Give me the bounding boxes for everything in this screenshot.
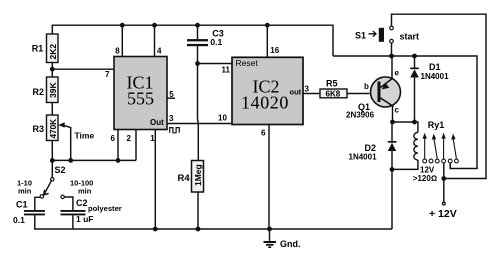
capacitor C2 <box>61 198 122 224</box>
node D1 bottom <box>412 120 417 125</box>
resistor R5 <box>320 79 347 99</box>
svg-text:0.1: 0.1 <box>13 215 25 225</box>
svg-text:Out: Out <box>150 118 164 127</box>
svg-text:>120Ω: >120Ω <box>413 174 437 183</box>
svg-text:C2: C2 <box>76 198 88 208</box>
svg-text:5: 5 <box>169 90 174 99</box>
svg-text:1N4001: 1N4001 <box>421 72 450 81</box>
svg-text:D2: D2 <box>365 143 377 153</box>
node C3 rail <box>195 23 200 28</box>
resistor R2 <box>33 77 59 103</box>
wire IC1 pin4 <box>154 25 156 57</box>
svg-text:1Meg: 1Meg <box>193 164 203 186</box>
node R1/R2 junction <box>50 67 55 72</box>
wire pin7 from R1/R2 junction <box>52 68 114 70</box>
svg-text:2N3906: 2N3906 <box>346 110 375 119</box>
wire IC1 pin6 drop <box>117 130 119 161</box>
+12V terminal <box>429 202 457 220</box>
switch S1 start <box>355 26 419 43</box>
svg-text:out: out <box>290 87 302 96</box>
svg-text:1 uF: 1 uF <box>76 214 93 224</box>
wire node to R4 with hop <box>197 64 200 161</box>
wire R5 to Q1 base <box>347 93 370 95</box>
node +12V junction <box>441 176 446 181</box>
relay contacts <box>423 137 458 163</box>
node pin8 rail <box>120 23 125 28</box>
IC IC1 555 timer <box>105 47 174 144</box>
wire IC1 pin8 <box>121 25 123 57</box>
node D1 top <box>412 54 417 59</box>
wire C3 top lead <box>197 25 199 39</box>
ground symbol <box>264 239 301 249</box>
wire top rail <box>52 25 333 56</box>
switch S2 <box>17 165 93 199</box>
wire IC2 pin16 <box>266 25 268 57</box>
node S1 bottom <box>389 54 394 59</box>
svg-text:D1: D1 <box>429 62 441 72</box>
wire D2 top lead <box>391 122 393 141</box>
svg-text:polyester: polyester <box>88 204 122 213</box>
svg-text:Ry1: Ry1 <box>428 120 445 130</box>
diode D1 <box>410 62 449 81</box>
wire D2 bottom lead to ground riser <box>391 151 393 229</box>
node pin6 tap <box>116 158 121 163</box>
wire IC2 pin6 drop <box>268 125 270 230</box>
svg-text:16: 16 <box>270 46 279 55</box>
wire IC1 pin1 drop <box>154 130 156 230</box>
node C3 bottom <box>195 61 200 66</box>
wire IC1 pin5 stub <box>167 97 176 99</box>
svg-text:2K2: 2K2 <box>48 44 58 60</box>
node pin4 rail <box>152 23 157 28</box>
transistor Q1 <box>346 69 401 120</box>
svg-text:6: 6 <box>261 128 266 137</box>
svg-text:3: 3 <box>305 85 310 94</box>
svg-text:R4: R4 <box>178 173 191 184</box>
svg-text:e: e <box>395 69 400 78</box>
svg-text:b: b <box>364 82 369 91</box>
wire C2 bottom lead <box>72 215 74 229</box>
svg-text:11: 11 <box>222 66 231 75</box>
wire C1 top lead <box>35 197 40 210</box>
svg-text:3: 3 <box>169 114 174 123</box>
svg-text:S2: S2 <box>55 165 66 175</box>
diode D2 <box>349 141 397 162</box>
capacitor C3 <box>187 28 224 46</box>
node coil bottom <box>390 167 395 172</box>
relay Ry1 coil <box>413 120 445 183</box>
svg-text:R5: R5 <box>326 79 338 89</box>
svg-text:555: 555 <box>127 89 154 109</box>
wire pot wiper <box>63 125 71 160</box>
wire relay c4 to +12V <box>443 163 445 202</box>
wire relay c5 jog <box>449 163 451 169</box>
svg-text:S1: S1 <box>355 31 366 41</box>
wire S2 common lead <box>51 160 53 177</box>
svg-text:min: min <box>18 187 32 196</box>
wire R3 bottom lead <box>51 141 53 162</box>
svg-text:7: 7 <box>105 70 110 79</box>
capacitor C1 <box>13 200 45 226</box>
squarewave glyph <box>170 128 180 133</box>
svg-text:C1: C1 <box>16 200 28 210</box>
svg-text:4: 4 <box>157 47 162 56</box>
svg-text:start: start <box>400 31 420 41</box>
svg-text:R3: R3 <box>33 124 45 134</box>
svg-text:2: 2 <box>127 134 132 143</box>
wire R4 bottom lead <box>197 192 199 229</box>
svg-text:min: min <box>78 187 92 196</box>
wire timing node horizontal <box>52 159 136 161</box>
svg-text:+ 12V: + 12V <box>429 208 457 220</box>
node gnd symbol <box>267 227 272 232</box>
svg-text:1N4001: 1N4001 <box>349 153 378 162</box>
svg-text:6K8: 6K8 <box>326 89 341 98</box>
wire D1 stub <box>414 56 416 68</box>
wire S2 arm <box>44 181 51 194</box>
wire C3 bottom lead to node <box>197 46 199 64</box>
wire IC1 pin3 to IC2 pin10 <box>167 123 232 125</box>
resistor R3 (pot) <box>33 115 95 141</box>
wire D1 bottom <box>414 78 416 123</box>
svg-text:0.1: 0.1 <box>210 37 222 47</box>
wire Q1 collector down <box>392 106 394 122</box>
wire IC1 pin2 drop <box>135 130 137 161</box>
svg-text:R1: R1 <box>32 43 44 53</box>
wire IC2 out to R5 <box>303 93 320 95</box>
resistor R1 <box>32 34 58 63</box>
svg-text:Reset: Reset <box>236 58 259 68</box>
wire bottom ground rail <box>35 215 392 229</box>
node pin16 rail <box>265 23 270 28</box>
wire V+ horizontal <box>333 56 477 169</box>
node wiper tap <box>68 158 73 163</box>
wire coil bottom <box>392 160 418 169</box>
node collector <box>390 120 395 125</box>
wire ground stub <box>269 229 271 241</box>
wire S1 top route <box>392 14 487 178</box>
svg-text:8: 8 <box>115 47 120 56</box>
IC IC2 14020 counter <box>218 46 310 137</box>
svg-text:Time: Time <box>75 130 95 140</box>
wire R2-R3 lead <box>51 103 53 116</box>
wire collector to coil top <box>393 122 418 132</box>
svg-text:c: c <box>395 106 400 115</box>
svg-text:470K: 470K <box>49 119 58 139</box>
wire pin11 <box>198 63 233 65</box>
node pin1 ground <box>153 227 158 232</box>
svg-text:14020: 14020 <box>241 93 289 113</box>
svg-text:R2: R2 <box>33 87 45 97</box>
node R4 ground <box>196 227 201 232</box>
svg-text:Gnd.: Gnd. <box>280 239 301 249</box>
wire Q1 emitter up <box>391 56 393 79</box>
svg-text:1: 1 <box>150 134 155 143</box>
svg-text:6: 6 <box>111 134 116 143</box>
svg-text:10: 10 <box>218 114 227 123</box>
svg-text:39K: 39K <box>48 82 58 98</box>
wire C2 top lead <box>64 197 73 210</box>
resistor R4 <box>178 161 204 193</box>
wire R1 bottom lead <box>51 63 53 78</box>
wire S1 bottom stub <box>391 43 393 56</box>
node R3 bottom <box>50 158 55 163</box>
